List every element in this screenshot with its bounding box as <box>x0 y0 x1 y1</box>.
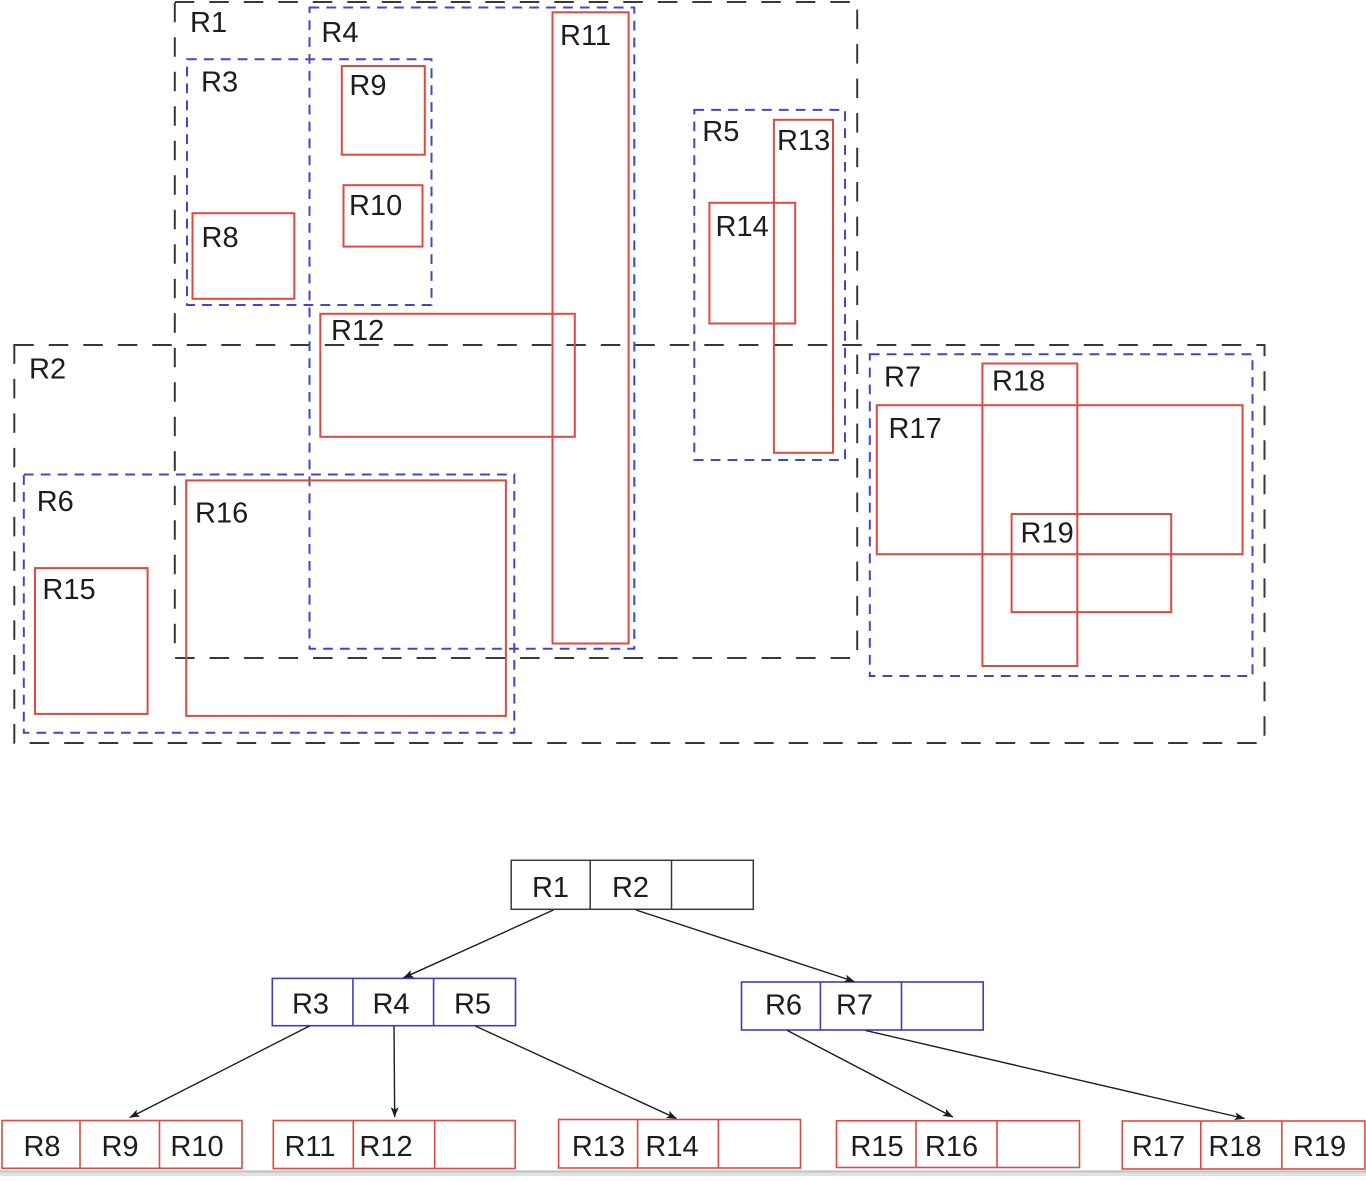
svg-text:R3: R3 <box>201 67 238 99</box>
svg-text:R9: R9 <box>349 70 386 102</box>
svg-text:R13: R13 <box>777 125 830 157</box>
svg-text:R1: R1 <box>532 872 569 904</box>
svg-text:R5: R5 <box>702 116 739 148</box>
svg-text:R2: R2 <box>29 354 66 386</box>
svg-text:R3: R3 <box>292 989 329 1021</box>
svg-text:R16: R16 <box>195 498 248 530</box>
svg-text:R7: R7 <box>884 362 921 394</box>
svg-text:R17: R17 <box>1132 1131 1185 1163</box>
svg-text:R11: R11 <box>284 1131 335 1163</box>
svg-text:R5: R5 <box>454 989 491 1021</box>
svg-text:R10: R10 <box>170 1131 223 1163</box>
svg-text:R18: R18 <box>992 366 1045 398</box>
svg-text:R13: R13 <box>572 1131 625 1163</box>
svg-text:R19: R19 <box>1293 1131 1346 1163</box>
svg-text:R15: R15 <box>42 574 95 606</box>
svg-text:R17: R17 <box>889 413 942 445</box>
svg-text:R8: R8 <box>202 222 239 254</box>
svg-text:R16: R16 <box>925 1131 978 1163</box>
svg-text:R19: R19 <box>1021 518 1074 550</box>
svg-text:R6: R6 <box>765 990 802 1022</box>
svg-text:R2: R2 <box>612 872 649 904</box>
svg-text:R9: R9 <box>101 1131 138 1163</box>
svg-text:R14: R14 <box>645 1131 698 1163</box>
svg-text:R6: R6 <box>37 486 74 518</box>
svg-text:R4: R4 <box>321 17 358 49</box>
svg-text:R15: R15 <box>850 1131 903 1163</box>
svg-text:R8: R8 <box>23 1131 60 1163</box>
svg-text:R1: R1 <box>190 7 227 39</box>
svg-text:R10: R10 <box>349 190 402 222</box>
svg-text:R4: R4 <box>372 989 409 1021</box>
svg-text:R12: R12 <box>331 315 384 347</box>
svg-text:R18: R18 <box>1208 1131 1261 1163</box>
svg-text:R12: R12 <box>359 1131 412 1163</box>
svg-text:R14: R14 <box>716 211 769 243</box>
svg-text:R7: R7 <box>836 990 873 1022</box>
svg-text:R11: R11 <box>560 20 611 52</box>
